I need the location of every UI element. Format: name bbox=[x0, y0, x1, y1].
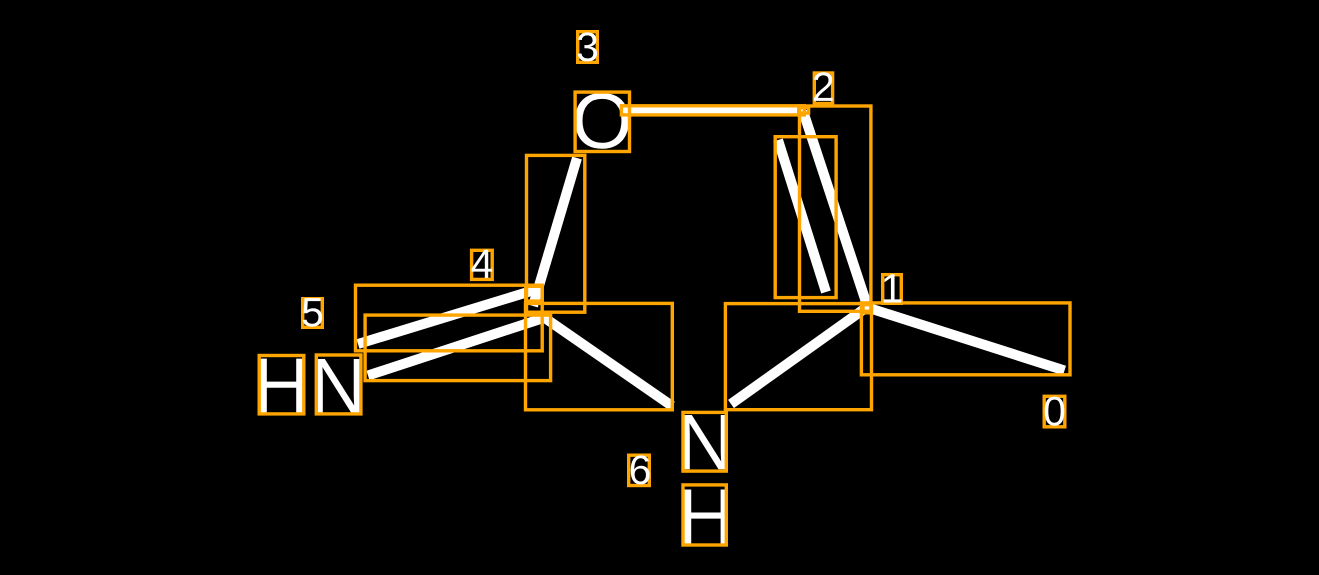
bbox bond C1-C0 bbox=[861, 303, 1070, 375]
bbox label 1 bbox=[883, 275, 902, 304]
bbox bond C4=N5 upper bbox=[356, 285, 543, 351]
bbox atom N5 glyph H bbox=[259, 356, 304, 414]
node atom C1 junction fill bbox=[862, 303, 873, 313]
bond C4=N5 main line bbox=[368, 318, 545, 376]
index label 4 bbox=[472, 250, 493, 278]
bbox atom C4 bbox=[526, 286, 543, 301]
bond C4-N6 bbox=[542, 316, 672, 406]
bond C1-N6 bbox=[731, 307, 867, 404]
bbox atom C1 bbox=[863, 305, 871, 313]
bond C2=C1 inner line bbox=[778, 140, 826, 292]
atom index digits bbox=[303, 32, 1065, 484]
bbox atom C2 bbox=[799, 108, 809, 114]
bbox bond C2=C1 main bbox=[800, 106, 871, 311]
bbox bond C4-N6 bbox=[526, 303, 673, 409]
bbox bond O3-C4 bbox=[527, 155, 585, 312]
bbox atom O3 bbox=[575, 92, 629, 151]
bond C4=N5 upper line bbox=[358, 288, 541, 344]
bbox atom N6 glyph H bbox=[683, 485, 726, 545]
bbox label 3 bbox=[578, 32, 598, 63]
atom N5 label H bbox=[259, 359, 303, 413]
index label 6 bbox=[631, 455, 650, 484]
bond O3-C4 bbox=[533, 158, 577, 306]
atom N5 label N bbox=[316, 359, 360, 413]
bbox bond C2=C1 inner bbox=[775, 137, 836, 298]
bbox bond C4=N5 main bbox=[365, 315, 550, 381]
bond C1-C0 bbox=[868, 308, 1065, 371]
bonds bbox=[358, 110, 1065, 406]
bbox atom N6 glyph N bbox=[683, 412, 726, 471]
atom N6 label H bbox=[684, 489, 728, 543]
bbox label 6 bbox=[629, 455, 650, 485]
index label 5 bbox=[303, 298, 322, 327]
bbox label 4 bbox=[472, 250, 493, 279]
bbox label 2 bbox=[814, 73, 832, 104]
bbox bond O3-C2 bbox=[621, 106, 804, 115]
index label 2 bbox=[814, 72, 833, 101]
bond O3-C2 bbox=[622, 105, 803, 115]
bbox label 5 bbox=[303, 299, 323, 328]
annotation bounding boxes bbox=[259, 32, 1070, 545]
atom labels bbox=[259, 93, 728, 544]
index label 1 bbox=[884, 274, 902, 302]
index label 0 bbox=[1045, 397, 1065, 426]
atom O3 label O bbox=[575, 93, 629, 149]
index label 3 bbox=[578, 32, 597, 61]
bbox label 0 bbox=[1044, 396, 1065, 427]
bbox bond C1-N6 bbox=[725, 304, 871, 410]
bbox atom N5 glyph N bbox=[316, 355, 361, 414]
atom N6 label N bbox=[683, 415, 727, 469]
bond C2=C1 main line bbox=[803, 111, 868, 307]
